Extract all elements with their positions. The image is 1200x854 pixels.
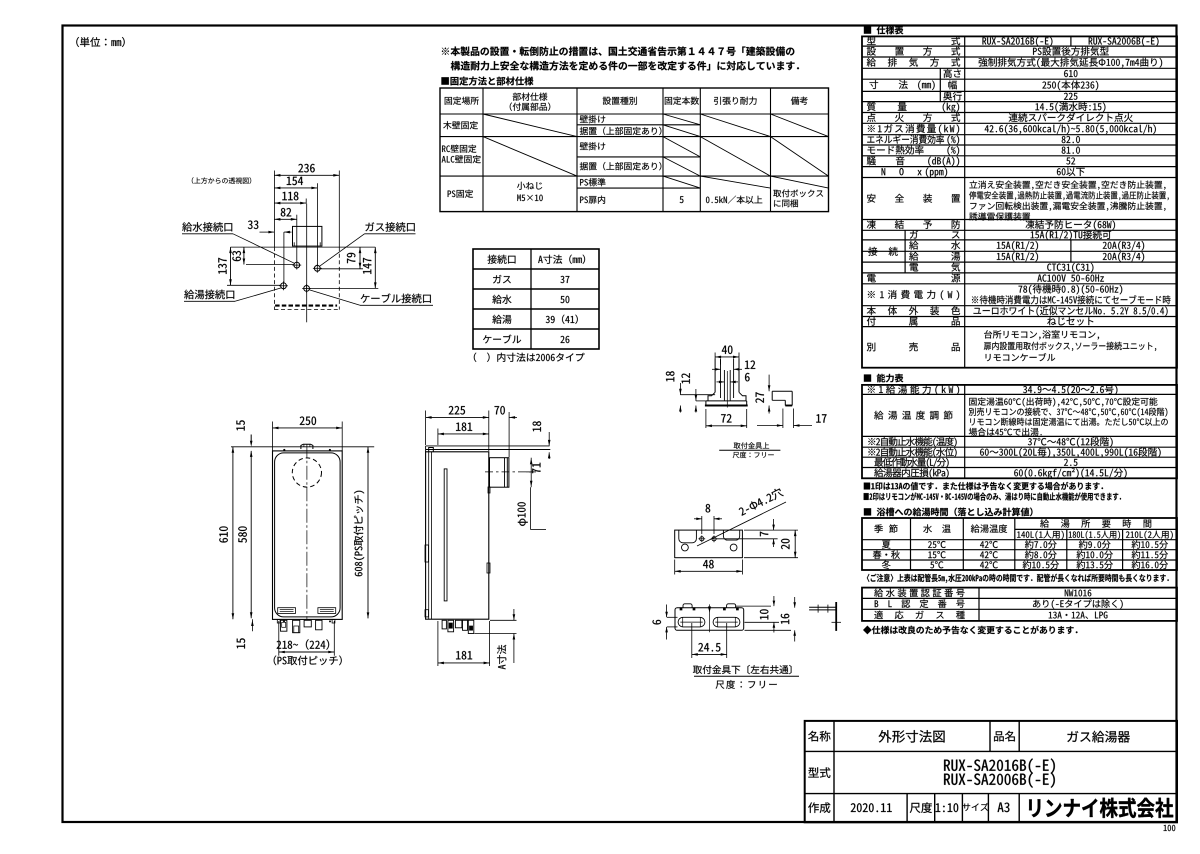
dim A [490, 619, 517, 621]
exhaust duct rectangle [293, 226, 322, 246]
side view body outline [426, 452, 489, 619]
upper bracket caption [734, 442, 769, 449]
dim 27 [768, 375, 770, 392]
dim 608 PS pitch [367, 447, 369, 619]
front view body outline [273, 451, 343, 620]
dim 72 [705, 409, 707, 428]
hot water connection [281, 283, 287, 289]
bathtub fill-time heading [864, 508, 1033, 517]
upper bracket side profile [772, 390, 792, 392]
dim 6 lower [667, 616, 678, 618]
cable connection [304, 286, 310, 292]
upper bracket body [714, 359, 716, 393]
dim 18 bracket [680, 394, 715, 396]
dim 147 [310, 287, 379, 289]
dim 20 [744, 529, 798, 531]
lower bracket caption [693, 665, 792, 674]
capacity table heading [864, 374, 903, 383]
fixing method table heading [441, 77, 533, 86]
dim 236 [273, 171, 275, 248]
phi100 label [530, 487, 532, 529]
dim 181 top [437, 429, 439, 446]
lower bracket center line [709, 604, 711, 632]
top screws [283, 449, 285, 451]
title block grid [805, 721, 1177, 822]
bathtub table text [874, 524, 897, 533]
side groove [444, 469, 447, 601]
lower bracket holes [682, 544, 689, 551]
top view caption [192, 177, 251, 184]
sheet number [1164, 825, 1176, 831]
side small latch marks [425, 545, 429, 562]
dim 82 [296, 215, 298, 262]
top view body dashed outline [273, 247, 275, 310]
spec table grid [862, 36, 1177, 367]
dim 10 lower [735, 605, 771, 607]
wall rail thick dashed line [275, 305, 337, 307]
lower bracket plan view [675, 530, 743, 558]
lower bracket front view [675, 608, 744, 631]
label 給湯接続口 [184, 290, 234, 299]
gas connection [314, 265, 320, 271]
center line [306, 204, 308, 323]
fixing table diagonal slashes [483, 114, 577, 137]
dim 63 [246, 264, 294, 266]
dim 250 [272, 422, 274, 451]
bathtub table grid [862, 518, 1177, 570]
dim 7 [717, 538, 778, 540]
connection A-size table [473, 249, 599, 349]
side top hook [429, 448, 434, 452]
front center line [306, 444, 308, 619]
vent grilles [278, 608, 296, 614]
regulation note line 2 [451, 61, 799, 70]
dim 225 [425, 411, 427, 446]
unit note [76, 37, 124, 47]
dim 15 top [236, 420, 244, 430]
bathtub note [867, 574, 1169, 583]
horizontal extension line at body top [231, 246, 376, 248]
label ケーブル接続口 [361, 293, 431, 303]
spec table heading [864, 26, 903, 34]
dim 12 stem [720, 359, 722, 365]
bottom fittings [281, 620, 287, 631]
top plate [426, 445, 550, 447]
dim 18 [548, 432, 550, 446]
dim 6 [717, 381, 725, 383]
top bracket tab [301, 444, 313, 449]
dim 70 [508, 412, 510, 457]
2-phi4.2 leader [697, 502, 786, 546]
duct center dash line [485, 471, 532, 473]
fixing table grid [440, 88, 829, 212]
dim 218-224 PS pitch [278, 621, 280, 656]
water inlet connection [294, 262, 300, 268]
dim 137 [227, 284, 280, 286]
dim 40 [714, 353, 716, 359]
certification table [862, 588, 1177, 621]
dim 24.5 [691, 623, 693, 658]
safety devices text [969, 181, 1165, 190]
dim 580 [250, 451, 252, 618]
label 給水接続口 [182, 222, 232, 231]
fixing table headers [445, 97, 479, 105]
2-phi4.2 holes [700, 537, 704, 541]
capacity notes [864, 482, 1103, 490]
dim 16 lower [745, 629, 792, 631]
company name [1029, 798, 1173, 818]
dim 79 [321, 268, 364, 270]
side front flange lines [428, 452, 430, 619]
dim 33 [283, 232, 285, 283]
label ガス接続口 [365, 222, 414, 231]
side bottom fittings [442, 620, 446, 629]
dim 17 [782, 409, 784, 429]
dim 15 bottom [251, 619, 253, 631]
lower bracket side profile [809, 606, 836, 608]
dim 118 [305, 199, 307, 204]
dim 610 [232, 447, 234, 619]
capacity rows [868, 385, 959, 395]
final note [863, 626, 1077, 635]
fixing table row labels [443, 121, 478, 129]
dim 71 [530, 458, 532, 488]
top extension line [231, 446, 374, 448]
spec rows: labels and values [867, 36, 960, 45]
exhaust hole dashed circle [292, 458, 321, 487]
exhaust duct side [490, 458, 509, 488]
dim 12 base [696, 400, 706, 402]
front panel rounded rect [275, 453, 341, 617]
capacity table grid [862, 385, 1177, 478]
dim 48 [674, 560, 676, 575]
installation type cells [580, 115, 605, 123]
dim 154 [316, 183, 318, 265]
regulation note line 1 [442, 46, 794, 56]
dim 8 [701, 516, 703, 534]
title block text [808, 731, 830, 742]
A-size table note [474, 353, 585, 362]
lower bracket slots [678, 617, 705, 627]
dim 181 bottom [437, 621, 439, 666]
PS pitch caption [274, 655, 342, 665]
